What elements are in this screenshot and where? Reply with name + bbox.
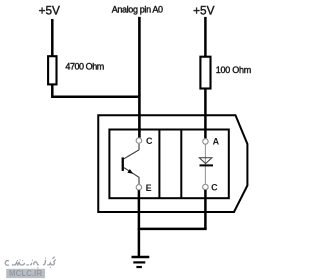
LED D1 anode lead <box>204 144 206 184</box>
wire from R1 bottom to node A0 (corner) <box>52 85 140 97</box>
wire from right +5V to resistor R2 <box>204 17 207 58</box>
svg-text:A: A <box>213 137 220 147</box>
watermark MCLC.IR badge <box>6 269 45 278</box>
wire from R2 bottom to pin A <box>204 88 207 138</box>
ground symbol bar 2 <box>133 261 145 263</box>
svg-text:E: E <box>146 183 152 193</box>
phototransistor Q1 collector lead <box>124 144 139 159</box>
wire from left +5V to resistor R1 <box>51 19 54 57</box>
svg-text:100 Ohm: 100 Ohm <box>216 65 251 75</box>
pin A (LED anode) <box>203 139 209 145</box>
inner divider left <box>158 130 160 199</box>
watermark Persian text (drawn squiggles) <box>5 257 55 268</box>
phototransistor Q1 emitter arrow <box>127 169 133 174</box>
resistor R1 4700 Ohm <box>48 56 56 84</box>
wire from pin E down to ground <box>138 190 141 256</box>
inner divider right <box>180 130 182 199</box>
svg-text:C: C <box>211 183 218 193</box>
optocoupler U1 inner frame <box>109 130 228 199</box>
svg-text:Analog pin A0: Analog pin A0 <box>112 4 163 14</box>
pin E (phototransistor emitter) <box>136 185 142 191</box>
pin C (phototransistor collector) <box>136 138 142 144</box>
ground symbol bar 1 <box>132 256 150 259</box>
svg-text:+5V: +5V <box>193 3 214 17</box>
svg-text:MCLC.IR: MCLC.IR <box>9 269 42 278</box>
svg-text:C: C <box>146 136 153 146</box>
phototransistor Q1 base bar <box>122 157 124 171</box>
svg-text:+5V: +5V <box>39 3 60 17</box>
pin C (LED cathode) <box>203 184 209 190</box>
phototransistor Q1 emitter lead <box>124 168 139 185</box>
resistor R2 100 Ohm <box>200 57 210 89</box>
wire from LED cathode pin down <box>204 190 207 229</box>
LED D1 triangle <box>199 158 212 164</box>
wire Analog pin A0 vertical <box>138 17 141 138</box>
wire joining cathode to ground wire <box>138 228 207 231</box>
svg-text:4700 Ohm: 4700 Ohm <box>65 61 103 71</box>
ground symbol bar 3 <box>136 266 142 268</box>
LED D1 cathode bar <box>200 164 214 166</box>
optocoupler U1 outer body <box>98 115 247 212</box>
